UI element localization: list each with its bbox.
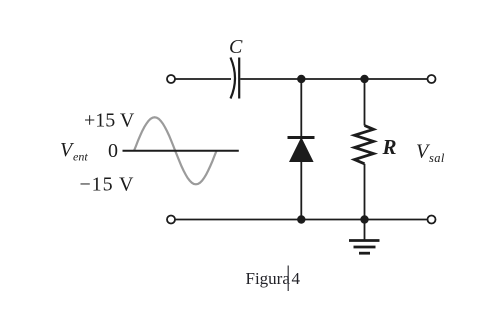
svg-text:R: R [382, 135, 397, 159]
signal axis line [123, 150, 239, 152]
wire diode top [300, 79, 302, 137]
svg-text:ent: ent [73, 150, 88, 164]
node: bottom resistor junction [360, 215, 368, 223]
ground bar 3 [359, 252, 370, 255]
output terminal bottom-right [428, 216, 436, 224]
svg-text:4: 4 [292, 269, 301, 288]
node: bottom diode junction [297, 215, 305, 223]
resistor R zigzag [355, 126, 374, 164]
svg-text:Figura: Figura [246, 269, 291, 288]
ground bar 2 [354, 246, 376, 249]
svg-text:0: 0 [108, 140, 118, 162]
bottom wire [175, 219, 427, 221]
wire resistor top [364, 79, 366, 126]
wire diode bottom [300, 161, 302, 220]
node: top diode junction [297, 75, 305, 83]
svg-text:sal: sal [429, 151, 445, 165]
capacitor C straight plate [238, 58, 240, 99]
wire top-left to capacitor [175, 78, 231, 80]
output terminal top-right [428, 75, 436, 83]
input terminal bottom-left [167, 216, 175, 224]
svg-text:C: C [229, 36, 243, 58]
wire capacitor to top-right terminal [240, 78, 428, 80]
diode D1 cathode bar [288, 136, 315, 139]
wire resistor bottom [364, 164, 366, 220]
ground bar 1 [349, 239, 380, 242]
svg-text:+15 V: +15 V [84, 110, 135, 132]
input terminal top-left [167, 75, 175, 83]
capacitor C curved plate [231, 58, 236, 99]
diode D1 triangle [290, 138, 313, 161]
input sine wave [134, 117, 217, 184]
svg-text:−15 V: −15 V [80, 174, 135, 196]
caption cursor bar [287, 266, 289, 292]
ground stub wire [364, 220, 366, 240]
node: top resistor junction [360, 75, 368, 83]
